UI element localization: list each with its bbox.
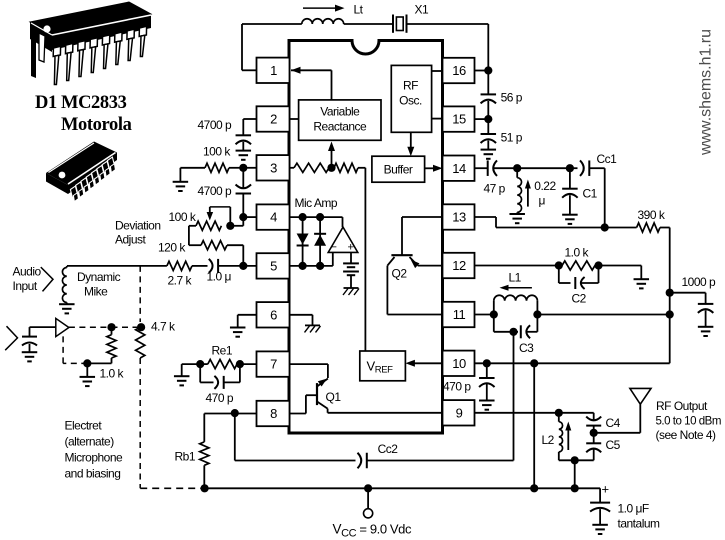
ground at 100k pin3 xyxy=(173,181,189,183)
pin 14 box xyxy=(443,156,475,181)
svg-text:10: 10 xyxy=(452,356,466,371)
svg-text:μ: μ xyxy=(539,194,546,208)
dashed wire amp output xyxy=(69,326,112,328)
svg-text:56 p: 56 p xyxy=(501,91,523,105)
wire pin1 to top rail xyxy=(242,69,257,71)
svg-text:1.0 k: 1.0 k xyxy=(565,246,590,260)
wire pin 6 to internal ground xyxy=(290,314,313,316)
antenna RF output xyxy=(630,388,651,404)
svg-text:390 k: 390 k xyxy=(638,208,666,222)
wire Cc2 run xyxy=(234,413,236,460)
ground after 1.0k xyxy=(634,278,650,280)
node Re1 left xyxy=(196,360,204,368)
wire pin 11 to tank xyxy=(475,314,494,316)
capacitor 470p at pin 10 xyxy=(486,363,488,378)
node pin3 xyxy=(239,164,247,172)
resistor Re1 xyxy=(208,360,237,369)
pin 1 box xyxy=(257,58,290,83)
svg-text:Reactance: Reactance xyxy=(313,120,367,134)
svg-text:Dynamic: Dynamic xyxy=(77,270,121,284)
op-amp mic amp triangle xyxy=(328,227,358,252)
wire Re1 to ground xyxy=(182,363,201,365)
svg-text:RF: RF xyxy=(403,79,418,93)
wire pin 5 line xyxy=(218,265,256,267)
node pin11 line meets 390k drop xyxy=(666,310,674,318)
svg-text:4.7 k: 4.7 k xyxy=(151,320,176,334)
inductor L1 xyxy=(493,301,495,315)
svg-text:Microphone: Microphone xyxy=(65,451,124,465)
electret coupling capacitor xyxy=(22,336,37,338)
svg-text:(see Note 4): (see Note 4) xyxy=(656,428,717,442)
wire pin 7 to Re1 xyxy=(240,363,257,365)
svg-text:Osc.: Osc. xyxy=(399,94,422,108)
svg-text:Electret: Electret xyxy=(65,419,103,433)
node pin5-diode D1b xyxy=(316,262,324,270)
svg-text:Q2: Q2 xyxy=(392,267,408,281)
svg-text:C2: C2 xyxy=(572,292,587,306)
svg-text:14: 14 xyxy=(452,161,466,176)
node electret ground xyxy=(83,359,91,367)
wire pin 5 line to op-amp inverting input xyxy=(290,265,333,267)
resistor 1.0k electret xyxy=(111,327,113,335)
VCC terminal xyxy=(367,488,369,508)
resistor 390k xyxy=(605,227,637,229)
svg-text:100 k: 100 k xyxy=(203,145,231,159)
svg-text:51 p: 51 p xyxy=(501,131,523,145)
svg-text:Buffer: Buffer xyxy=(384,163,413,177)
wire pin 6 external to ground xyxy=(238,314,257,316)
pin 3 box xyxy=(257,155,290,180)
arrow L1 adjustable xyxy=(506,287,532,289)
capacitor 1.0uF tantalum xyxy=(599,488,601,502)
wire node to C1 node xyxy=(517,167,570,169)
node L1 left xyxy=(490,310,498,318)
capacitor C3 xyxy=(520,325,522,338)
node pot wiper junction xyxy=(327,164,335,172)
node Rb1 rail xyxy=(201,484,209,492)
svg-text:7: 7 xyxy=(270,357,277,372)
svg-text:−: − xyxy=(331,242,337,254)
capacitor C4 xyxy=(593,413,595,421)
svg-text:Deviation: Deviation xyxy=(115,219,161,233)
capacitor 1.0u xyxy=(217,259,219,273)
svg-text:2: 2 xyxy=(270,112,277,127)
IC D1 MC2833 body outline xyxy=(289,41,443,434)
node pin5-diode D1a xyxy=(299,262,307,270)
VREF block xyxy=(360,351,406,381)
potentiometer 100k deviation xyxy=(196,221,221,230)
svg-text:(alternate): (alternate) xyxy=(65,435,115,449)
capacitor 470p parallel Re1 xyxy=(199,364,201,382)
potentiometer right half xyxy=(334,163,358,172)
transistor Q2 xyxy=(387,217,442,315)
wire 1.0k to ground xyxy=(599,265,642,267)
svg-text:5: 5 xyxy=(270,259,277,274)
svg-text:8: 8 xyxy=(270,406,277,421)
svg-text:100 k: 100 k xyxy=(169,210,197,224)
resistor Rb1 xyxy=(203,414,205,442)
SOIC-16 package drawing xyxy=(46,142,117,202)
node pot right xyxy=(226,222,234,230)
ground at pin 6 xyxy=(230,327,246,329)
battery bias at op-amp + input xyxy=(350,252,352,263)
svg-text:47 p: 47 p xyxy=(484,182,506,196)
ground below electret cap xyxy=(22,351,38,353)
wire pin 16 to node xyxy=(475,70,489,72)
inductor L2 xyxy=(558,413,560,422)
Buffer block xyxy=(372,156,425,182)
ground below 4700p upper xyxy=(236,150,252,152)
pot wiper arrow xyxy=(210,206,231,208)
svg-text:3: 3 xyxy=(270,160,277,175)
svg-text:Audio: Audio xyxy=(13,265,42,279)
wire pot to pin4 node xyxy=(230,225,243,227)
svg-text:4: 4 xyxy=(270,210,277,225)
pin 4 box xyxy=(257,204,290,229)
node Cc2 branch xyxy=(231,409,239,417)
node Re1 right xyxy=(236,360,244,368)
svg-text:tantalum: tantalum xyxy=(618,517,661,531)
wire Lt to X1 xyxy=(344,23,393,25)
pin 11 box xyxy=(443,302,475,327)
svg-text:Mike: Mike xyxy=(84,285,108,299)
arrow pin 10 to VREF xyxy=(412,362,443,364)
svg-text:4700 p: 4700 p xyxy=(198,184,233,198)
wire pin2 stub to Variable Reactance xyxy=(290,118,299,120)
wire L2 top to C4 xyxy=(559,412,594,414)
node 390k xyxy=(601,223,609,231)
resistor 120k xyxy=(188,226,190,245)
svg-text:+: + xyxy=(348,242,354,254)
svg-text:1000 p: 1000 p xyxy=(682,275,717,289)
svg-text:2.7 k: 2.7 k xyxy=(168,274,193,288)
svg-text:Re1: Re1 xyxy=(212,344,233,358)
wire pin 13 external xyxy=(475,216,497,218)
transistor Q1 xyxy=(290,364,443,413)
capacitor C1 xyxy=(569,168,571,189)
svg-text:Motorola: Motorola xyxy=(61,115,132,135)
inductor Lt xyxy=(302,19,344,24)
node L1 right xyxy=(533,310,541,318)
chassis ground at pin 6 xyxy=(305,324,320,326)
wire L1 loop bottom left xyxy=(493,315,495,332)
wire pot right end down to VREF xyxy=(364,168,366,351)
inductor 0.22uH xyxy=(516,168,518,178)
pin 12 box xyxy=(443,253,475,278)
svg-text:Variable: Variable xyxy=(320,105,360,119)
node pin10 drop xyxy=(530,359,538,367)
electret amp triangle xyxy=(56,318,69,336)
svg-text:11: 11 xyxy=(453,307,466,322)
wire pin10 node down to supply rail xyxy=(533,363,535,488)
node L2 bottom tap xyxy=(571,456,579,464)
wire tap down to rail xyxy=(574,460,576,488)
capacitor 1000p xyxy=(705,293,707,304)
node pin4 xyxy=(239,213,247,221)
node pin4-diode D1b xyxy=(316,213,324,221)
ground below dynamic mike xyxy=(59,303,75,305)
capacitor C2 parallel xyxy=(558,266,560,284)
svg-text:C4: C4 xyxy=(606,416,621,430)
pin 6 box xyxy=(257,302,290,327)
node pin4-diode D1a xyxy=(299,213,307,221)
RF Osc block xyxy=(391,65,431,132)
crystal X1 xyxy=(393,15,407,33)
svg-text:470 p: 470 p xyxy=(443,380,471,394)
node C3 tap xyxy=(509,328,517,336)
svg-text:15: 15 xyxy=(452,112,466,127)
dashed rail electret side xyxy=(140,487,204,489)
node 4.7k top xyxy=(137,323,145,331)
ground below 0.22uH xyxy=(509,213,525,215)
svg-text:Mic Amp: Mic Amp xyxy=(295,196,338,210)
arrow 0.22uH adjustable xyxy=(527,186,529,207)
node 1.0k right xyxy=(594,261,602,269)
resistor 100k pin3 xyxy=(205,163,229,172)
capacitor 51p xyxy=(487,119,489,134)
arrow pot wiper to Variable Reactance xyxy=(331,148,333,168)
capacitor 56p xyxy=(487,71,489,95)
node L2 top xyxy=(555,409,563,417)
ground below 470p pin10 xyxy=(479,400,495,402)
capacitor Cc1 xyxy=(570,167,578,169)
pin 15 box xyxy=(443,106,475,131)
svg-text:C1: C1 xyxy=(583,187,598,201)
node 1000p branch xyxy=(666,289,674,297)
wire pin 8 to Rb1 xyxy=(204,413,256,415)
electret input chevron xyxy=(5,326,17,350)
wire RF Osc to pin15 xyxy=(432,118,443,120)
capacitor 47p on pin 14 xyxy=(475,167,488,169)
resistor 2.7k xyxy=(192,265,208,267)
wire pin 3 to 100k xyxy=(243,167,256,169)
dashed wire to amp bottom xyxy=(63,362,87,364)
wire Cc2 up to C3 tap xyxy=(513,332,515,461)
capacitor C5 xyxy=(593,433,595,444)
wire 390k down xyxy=(669,228,671,364)
resistor 4.7k xyxy=(136,327,145,358)
svg-text:1.0 μF: 1.0 μF xyxy=(618,502,649,516)
node VCC rail xyxy=(364,484,372,492)
wire L2 loop bottom xyxy=(559,459,594,461)
diode clamp anode-up xyxy=(319,217,321,266)
wire pin11 line to right xyxy=(537,314,669,316)
wire 1.0k bottom xyxy=(87,362,111,364)
svg-text:12: 12 xyxy=(452,258,466,273)
svg-text:Cc1: Cc1 xyxy=(597,152,618,166)
potentiometer on pin 3 line left half xyxy=(290,167,295,169)
svg-text:Lt: Lt xyxy=(354,3,364,17)
svg-text:C5: C5 xyxy=(606,438,621,452)
arrow current direction Lt xyxy=(303,7,336,9)
svg-text:Rb1: Rb1 xyxy=(175,450,196,464)
svg-text:16: 16 xyxy=(452,63,466,78)
svg-text:Input: Input xyxy=(13,279,38,293)
audio input chevron xyxy=(41,267,53,291)
wire Cc1 down to 390k node xyxy=(604,168,606,227)
DIP-16 package drawing D1 xyxy=(30,2,151,85)
ground below 51p xyxy=(481,149,497,151)
svg-text:X1: X1 xyxy=(415,3,430,17)
ground electret bias xyxy=(86,363,88,377)
pin 13 box xyxy=(443,204,475,229)
svg-text:1: 1 xyxy=(270,63,277,78)
svg-text:Adjust: Adjust xyxy=(115,233,147,247)
wire pin 4 line to op-amp xyxy=(290,216,343,218)
node pin16 xyxy=(484,66,492,74)
arrow RF Osc to Buffer xyxy=(410,132,412,149)
svg-text:C3: C3 xyxy=(519,341,534,355)
svg-text:470 p: 470 p xyxy=(206,391,234,405)
ground at Re1 xyxy=(174,375,190,377)
ground below tantalum xyxy=(592,524,608,526)
pin 8 box xyxy=(257,401,290,426)
node pin15 xyxy=(484,115,492,123)
node 47p-L xyxy=(513,164,521,172)
inductor dynamic mike xyxy=(66,266,68,268)
svg-text:1.0 μ: 1.0 μ xyxy=(207,270,232,284)
pin 9 box xyxy=(443,400,475,425)
capacitor 4700p upper xyxy=(243,118,256,120)
wire pin 10 external xyxy=(475,362,670,364)
node pin5 xyxy=(239,262,247,270)
node pin10-drop rail xyxy=(530,484,538,492)
pin 5 box xyxy=(257,253,290,278)
svg-text:+: + xyxy=(602,482,609,497)
capacitor Cc2 xyxy=(366,453,368,469)
wire X1 to pin 16 branch xyxy=(407,23,489,25)
svg-text:and biasing: and biasing xyxy=(65,467,121,481)
svg-text:1.0 k: 1.0 k xyxy=(100,367,125,381)
Variable Reactance block xyxy=(299,100,381,140)
wire RF Osc to pin16 xyxy=(432,70,443,72)
pin 2 box xyxy=(257,106,290,131)
pin 10 box xyxy=(443,351,475,376)
svg-text:Q1: Q1 xyxy=(326,390,342,404)
svg-text:RF Output: RF Output xyxy=(656,399,708,413)
arrow L2 adjustable xyxy=(567,428,569,450)
svg-text:4700 p: 4700 p xyxy=(198,118,233,132)
svg-text:www.shems.h1.ru: www.shems.h1.ru xyxy=(698,29,715,156)
wire pin 9 external xyxy=(475,412,559,414)
node C1 xyxy=(566,164,574,172)
svg-text:D1 MC2833: D1 MC2833 xyxy=(35,93,127,113)
svg-text:13: 13 xyxy=(452,210,466,225)
node rail L2 xyxy=(571,484,579,492)
node C4-C5 xyxy=(590,429,598,437)
dashed bias line with 4.7k xyxy=(139,266,141,322)
svg-text:5.0 to 10 dBm: 5.0 to 10 dBm xyxy=(656,413,722,427)
node 1.0k top xyxy=(107,323,115,331)
wire electret cap to amp xyxy=(29,327,31,337)
wire C4-C5 node to antenna xyxy=(594,432,641,434)
ground below 1000p xyxy=(698,326,714,328)
svg-text:120 k: 120 k xyxy=(158,241,186,255)
pin 7 box xyxy=(257,351,290,376)
svg-text:0.22: 0.22 xyxy=(534,179,556,193)
ground below C1 xyxy=(562,214,578,216)
node 1.0k left xyxy=(555,261,563,269)
arrow Buffer to pin 14 xyxy=(425,167,435,169)
svg-text:Cc2: Cc2 xyxy=(378,442,399,456)
node 470p pin10 xyxy=(483,359,491,367)
wire to 1000p xyxy=(670,292,706,294)
chassis ground under battery xyxy=(344,287,359,289)
supply rail xyxy=(205,487,600,489)
diode clamp anode-down xyxy=(302,217,304,266)
svg-text:9: 9 xyxy=(456,405,463,420)
wire pin 12 external xyxy=(475,265,559,267)
svg-text:L1: L1 xyxy=(509,271,522,285)
resistor 1.0k xyxy=(562,261,595,270)
svg-text:6: 6 xyxy=(270,307,277,322)
wire pin1 to Variable Reactance with arrow xyxy=(291,69,332,71)
svg-text:L2: L2 xyxy=(542,433,555,447)
pin 16 box xyxy=(443,58,475,83)
capacitor 4700p lower xyxy=(242,168,244,188)
